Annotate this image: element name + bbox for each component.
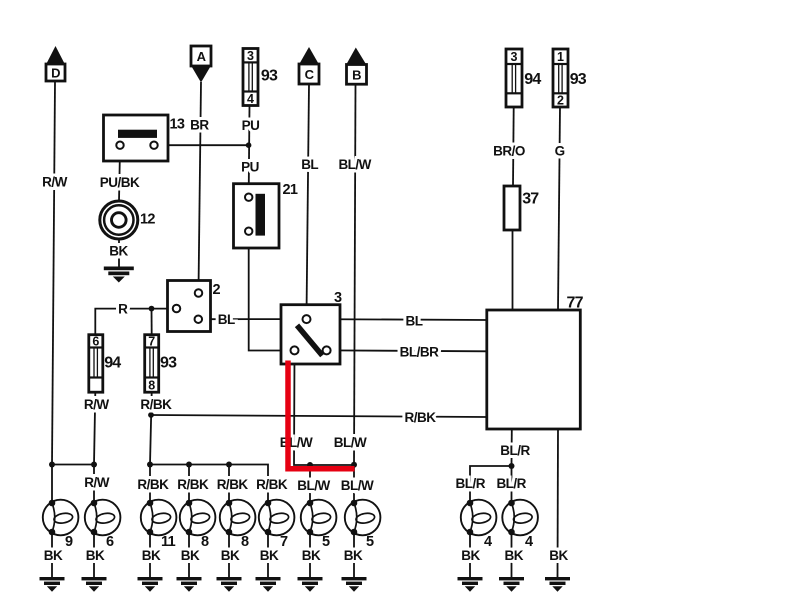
- svg-text:BL/W: BL/W: [341, 478, 374, 493]
- svg-text:B: B: [352, 67, 361, 82]
- svg-text:12: 12: [140, 212, 155, 228]
- svg-text:BK: BK: [505, 548, 524, 563]
- svg-text:4: 4: [247, 92, 254, 106]
- svg-text:3: 3: [334, 290, 342, 306]
- svg-text:4: 4: [484, 534, 492, 550]
- svg-text:5: 5: [366, 534, 374, 550]
- svg-text:BL: BL: [406, 313, 423, 328]
- svg-text:13: 13: [170, 117, 185, 133]
- svg-text:7: 7: [148, 335, 155, 349]
- svg-text:BR: BR: [190, 118, 209, 133]
- svg-text:BL/W: BL/W: [280, 435, 313, 450]
- svg-text:BK: BK: [142, 548, 161, 563]
- svg-text:BK: BK: [549, 548, 568, 563]
- svg-text:BK: BK: [109, 244, 128, 259]
- svg-text:2: 2: [557, 94, 564, 108]
- svg-text:BK: BK: [344, 548, 363, 563]
- svg-text:R/W: R/W: [42, 175, 68, 190]
- svg-text:94: 94: [104, 354, 121, 371]
- svg-text:R/BK: R/BK: [137, 477, 169, 492]
- svg-text:R/W: R/W: [84, 397, 110, 412]
- svg-text:BL/W: BL/W: [297, 478, 330, 493]
- svg-text:R: R: [118, 302, 128, 317]
- svg-text:BR/O: BR/O: [493, 144, 525, 159]
- svg-text:G: G: [555, 144, 565, 159]
- svg-text:1: 1: [557, 50, 564, 64]
- svg-text:R/BK: R/BK: [405, 410, 437, 425]
- svg-text:R/BK: R/BK: [256, 477, 288, 492]
- svg-text:37: 37: [522, 191, 539, 208]
- svg-text:9: 9: [65, 534, 73, 550]
- svg-text:2: 2: [213, 282, 221, 298]
- svg-text:BK: BK: [86, 548, 105, 563]
- svg-text:BL: BL: [218, 312, 235, 327]
- svg-text:BL/R: BL/R: [496, 476, 526, 491]
- svg-text:BL/R: BL/R: [456, 476, 486, 491]
- svg-text:PU: PU: [241, 159, 259, 174]
- svg-text:A: A: [197, 49, 207, 64]
- svg-text:8: 8: [148, 378, 155, 392]
- svg-text:BL/W: BL/W: [338, 157, 371, 172]
- svg-text:8: 8: [201, 534, 209, 550]
- svg-text:BK: BK: [181, 548, 200, 563]
- svg-text:6: 6: [106, 534, 114, 550]
- svg-text:R/BK: R/BK: [140, 397, 172, 412]
- svg-text:93: 93: [570, 71, 587, 88]
- svg-text:BK: BK: [461, 548, 480, 563]
- svg-text:PU: PU: [242, 118, 260, 133]
- svg-text:PU/BK: PU/BK: [100, 175, 140, 190]
- svg-text:4: 4: [525, 534, 533, 550]
- svg-text:3: 3: [511, 50, 518, 64]
- svg-text:R/W: R/W: [84, 475, 110, 490]
- svg-text:8: 8: [241, 534, 249, 550]
- svg-text:94: 94: [524, 71, 541, 88]
- svg-text:3: 3: [247, 49, 254, 63]
- svg-text:6: 6: [92, 335, 99, 349]
- svg-text:21: 21: [283, 182, 298, 198]
- svg-text:R/BK: R/BK: [217, 477, 249, 492]
- svg-text:11: 11: [161, 534, 176, 550]
- svg-text:5: 5: [322, 534, 330, 550]
- svg-text:R/BK: R/BK: [177, 477, 209, 492]
- svg-text:BK: BK: [302, 548, 321, 563]
- svg-text:77: 77: [567, 295, 584, 312]
- svg-text:C: C: [305, 67, 315, 82]
- svg-text:93: 93: [261, 68, 278, 85]
- svg-text:BK: BK: [260, 548, 279, 563]
- svg-text:93: 93: [160, 354, 177, 371]
- svg-text:BL/R: BL/R: [500, 443, 530, 458]
- svg-text:BL/BR: BL/BR: [400, 344, 439, 359]
- svg-text:BL/W: BL/W: [334, 435, 367, 450]
- svg-text:D: D: [51, 66, 60, 81]
- svg-text:7: 7: [280, 534, 288, 550]
- svg-text:BL: BL: [301, 157, 318, 172]
- svg-text:BK: BK: [44, 548, 63, 563]
- svg-text:BK: BK: [221, 548, 240, 563]
